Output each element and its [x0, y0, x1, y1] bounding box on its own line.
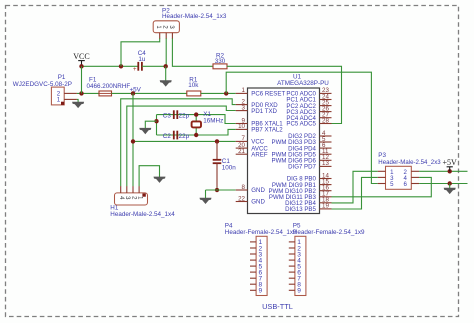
- capacitor C2: [163, 131, 190, 140]
- connector P4 pin 6: [250, 269, 263, 276]
- wire VCC pin7 line: [133, 140, 236, 142]
- junction C4/P2.2/GND: [164, 64, 168, 68]
- svg-text:GND: GND: [251, 187, 265, 194]
- supply VCC: [73, 52, 89, 66]
- connector P4 pin 1: [250, 239, 263, 246]
- connector P4 pin 4: [250, 257, 263, 264]
- svg-text:3: 3: [242, 104, 246, 111]
- wire P3 pin2 to +5V: [419, 170, 467, 172]
- svg-text:8: 8: [242, 184, 246, 191]
- U1 pin 3 (PD1 TXD): [236, 104, 278, 114]
- U1 pin 10 (PB7 XTAL2): [236, 123, 284, 133]
- svg-text:19: 19: [322, 203, 329, 210]
- ground symbol (P3): [444, 188, 456, 194]
- resistor R2: [213, 52, 227, 69]
- junction P2 pin1: [119, 64, 123, 68]
- U1 pin 21 (AREF): [236, 148, 268, 158]
- svg-text:Header-Male-2.54_1x4: Header-Male-2.54_1x4: [110, 211, 175, 218]
- junction C1 bottom: [215, 188, 219, 192]
- svg-text:10k: 10k: [188, 82, 199, 89]
- junction VCC stem: [79, 64, 83, 68]
- ground symbol (P2/C4): [160, 80, 172, 86]
- junction GND right: [448, 181, 452, 185]
- svg-text:PB7 XTAL2: PB7 XTAL2: [251, 127, 283, 134]
- connector P5 pin 2: [289, 245, 302, 252]
- wire P2 pin1 to VCC rail: [121, 38, 160, 66]
- supply +5V right: [443, 158, 458, 172]
- svg-text:1u: 1u: [138, 56, 146, 63]
- junction X1 bottom: [194, 133, 198, 137]
- ground symbol (P1): [72, 102, 84, 108]
- U1 pin 27 (PC4 ADC4): [286, 112, 331, 122]
- connector P5: [293, 222, 365, 295]
- junction RESET: [224, 91, 228, 95]
- connector P4 pin 8: [250, 282, 263, 289]
- svg-text:22p: 22p: [179, 113, 190, 120]
- wire MISO pin18 to P3 pin1: [332, 171, 378, 203]
- U1 pin 14 (DIG 8 PB0): [287, 172, 332, 182]
- wire SCK pin19 to P3 pin3: [332, 177, 378, 209]
- svg-text:C2: C2: [163, 133, 172, 140]
- connector P4 pin 5: [250, 263, 263, 270]
- wire GND pin8 line: [206, 189, 236, 191]
- connector P5 pin 3: [289, 251, 302, 258]
- U1 pin 6 (DIG4 PD4): [288, 142, 331, 152]
- connector P4 pin 7: [250, 276, 263, 283]
- connector P4: [225, 222, 297, 295]
- U1 pin 2 (PD0 RXD): [236, 98, 279, 108]
- svg-text:ATMEGA328P-PU: ATMEGA328P-PU: [277, 80, 329, 87]
- wire XTAL1 loop top (C3 row): [157, 115, 236, 124]
- connector P4 pin 2: [250, 245, 263, 252]
- connector P1: [13, 74, 77, 105]
- wire C4 to GND node: [142, 65, 166, 67]
- wire VCC stem down: [81, 66, 83, 93]
- wire crystal left vertical: [156, 115, 158, 135]
- U1 pin 7 (VCC): [236, 135, 265, 145]
- svg-text:0466.200NRHF: 0466.200NRHF: [87, 83, 131, 90]
- U1 pin 13 (DIG7 PD7): [288, 160, 331, 170]
- connector P4 pin 3: [250, 251, 263, 258]
- U1 pin 17 (PWM DIG11 PB3): [269, 191, 332, 201]
- connector P5 pin 4: [289, 257, 302, 264]
- wire TXD H1 to pin 3: [127, 106, 236, 186]
- IC U1 ATMEGA328P-PU: [248, 74, 330, 214]
- svg-text:+: +: [133, 67, 137, 73]
- ground symbol (crystal): [139, 128, 151, 134]
- capacitor C4: [133, 50, 146, 73]
- svg-text:21: 21: [238, 148, 245, 155]
- wire RESET to P3 pin5: [226, 72, 378, 183]
- wire C1 bottom to GND line: [216, 187, 218, 190]
- U1 pin 28 (PC5 ADC5): [286, 117, 331, 127]
- U1 pin 9 (PB6 XTAL1): [236, 117, 284, 127]
- U1 pin 23 (PC0 ADC0): [286, 87, 331, 97]
- svg-text:28: 28: [322, 117, 329, 124]
- junction crystal gnd tap: [154, 119, 158, 123]
- svg-text:13: 13: [322, 160, 329, 167]
- U1 pin 15 (PWM DIG9 PB1): [272, 178, 332, 188]
- svg-text:GND: GND: [251, 199, 265, 206]
- connector P5 pin 8: [289, 282, 302, 289]
- U1 pin 19 (DIG13 PB5): [285, 203, 331, 213]
- wire F1 to R1 (+5V): [112, 92, 187, 94]
- wire P1 pin1 to ground: [77, 99, 78, 102]
- svg-text:Header-Female-2.54_1x9: Header-Female-2.54_1x9: [225, 229, 297, 236]
- fuse F1: [87, 77, 131, 96]
- wire GND line stem: [205, 190, 207, 198]
- junction VCC to 5V line: [79, 91, 83, 95]
- connector P4 pin 9: [250, 288, 263, 295]
- wire 5V H1 riser: [132, 93, 134, 186]
- svg-text:USB-TTL: USB-TTL: [262, 302, 293, 311]
- wire crystal gnd tap: [145, 121, 156, 129]
- connector P2: [153, 7, 227, 38]
- U1 pin 22 (GND): [236, 195, 266, 205]
- U1 pin 24 (PC1 ADC1): [286, 93, 331, 103]
- wire GND right stem: [449, 184, 451, 189]
- svg-text:DIG7 PD7: DIG7 PD7: [288, 164, 316, 171]
- wire R1 to pin 1 RESET: [201, 92, 236, 94]
- connector H1: [110, 186, 175, 218]
- ground symbol (H1): [154, 177, 166, 183]
- svg-text:AREF: AREF: [251, 151, 268, 158]
- wire P3 pin6 to GND: [419, 183, 467, 185]
- U1 pin 18 (DIG12 PB4): [285, 197, 331, 207]
- connector P5 pin 9: [289, 288, 302, 295]
- svg-text:22p: 22p: [179, 133, 190, 140]
- wire P1 pin2 to F1: [77, 92, 99, 94]
- U1 pin 5 (PWM DIG3 PD3): [272, 136, 332, 146]
- svg-text:PC6 RESET: PC6 RESET: [251, 91, 285, 98]
- wire XTAL2 loop bottom (C2 row): [157, 129, 236, 135]
- svg-text:Header-Male-2.54_1x3: Header-Male-2.54_1x3: [162, 13, 227, 20]
- svg-text:10: 10: [238, 123, 245, 130]
- svg-text:PD1 TXD: PD1 TXD: [251, 108, 277, 115]
- connector P5 pin 6: [289, 269, 302, 276]
- capacitor C3: [163, 110, 190, 119]
- junction C1 top: [215, 139, 219, 143]
- svg-text:PC5 ADC5: PC5 ADC5: [286, 121, 316, 128]
- U1 pin 16 (PWM DIG10 PB2): [268, 185, 331, 195]
- svg-text:16MHz: 16MHz: [203, 118, 223, 125]
- U1 pin 8 (GND): [236, 184, 266, 194]
- crystal X1: [192, 111, 224, 135]
- wire VCC rail: [82, 65, 139, 67]
- junction +5V right: [448, 169, 452, 173]
- junction 5V/VCC line: [131, 139, 135, 143]
- U1 pin 4 (DIG2 PD2): [288, 130, 331, 140]
- U1 pin 1 (PC6 RESET): [236, 87, 286, 97]
- connector P5 pin 1: [289, 239, 302, 246]
- U1 pin 12 (PWM DIG6 PD6): [272, 154, 332, 164]
- svg-text:Header-Male-2.54_2x3: Header-Male-2.54_2x3: [378, 159, 441, 166]
- svg-text:Header-Female-2.54_1x9: Header-Female-2.54_1x9: [293, 229, 365, 236]
- connector P5 pin 7: [289, 276, 302, 283]
- wire MOSI pin17 to P3 pin4: [332, 177, 432, 196]
- svg-text:100n: 100n: [222, 165, 237, 172]
- junction +5V: [131, 91, 135, 95]
- wire R2 to pin 28 (PC5): [227, 66, 342, 123]
- wire GND stem: [165, 66, 167, 81]
- svg-text:9: 9: [297, 288, 301, 295]
- wire P2 pin2 to GND node: [165, 38, 167, 66]
- wire H1 pin4 to ground: [139, 166, 159, 187]
- resistor R1: [187, 77, 201, 96]
- ground symbol (C1/pin8): [200, 198, 212, 204]
- connector P3: [378, 152, 442, 189]
- U1 pin 25 (PC2 ADC2): [286, 99, 331, 109]
- junction X1 top: [194, 112, 198, 116]
- svg-text:C3: C3: [163, 113, 172, 120]
- U1 pin 20 (AVCC): [236, 142, 269, 152]
- svg-text:22: 22: [238, 195, 245, 202]
- svg-text:1: 1: [242, 87, 246, 94]
- U1 pin 11 (PWM DIG5 PD5): [272, 148, 332, 158]
- wire RXD H1 to pin 2: [121, 99, 236, 187]
- svg-text:+5V: +5V: [443, 158, 458, 167]
- U1 pin 26 (PC3 ADC3): [286, 105, 331, 115]
- svg-text:VCC: VCC: [73, 52, 89, 61]
- wire P2 pin3 to R2: [172, 38, 213, 66]
- connector P5 pin 5: [289, 263, 302, 270]
- capacitor C1: [213, 141, 237, 187]
- svg-text:DIG13 PB5: DIG13 PB5: [285, 206, 316, 213]
- svg-text:9: 9: [259, 288, 263, 295]
